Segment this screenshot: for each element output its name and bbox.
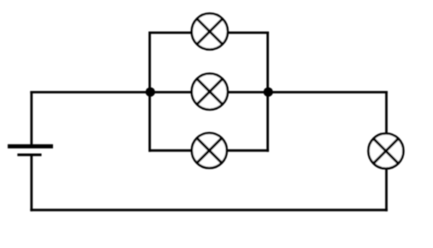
wire: main horizontal bus (battery + to parallel bank to right branch) xyxy=(32,91,387,93)
junction node: left junction dot xyxy=(146,87,156,97)
lamp L-mid (circle with X) in middle parallel branch xyxy=(192,74,228,110)
lamp L-bot (circle with X) in bottom parallel branch xyxy=(192,133,227,168)
battery cell positive plate (long) xyxy=(8,144,53,148)
battery cell negative plate (short) xyxy=(17,154,41,157)
lamp L-top (circle with X) in top parallel branch xyxy=(192,14,228,50)
wire: parallel bank left riser xyxy=(148,33,150,151)
wire: bottom return horizontal xyxy=(32,209,387,211)
junction node: right junction dot xyxy=(263,87,273,97)
wire: parallel bank right riser xyxy=(267,33,269,151)
lamp L-right (circle with X) in series right branch xyxy=(368,134,403,169)
wire: left vertical from bus down to battery positive plate xyxy=(30,92,32,146)
wire: bottom branch horizontal xyxy=(150,149,268,151)
wire: top branch horizontal xyxy=(150,32,268,34)
wire: left vertical from battery negative plate down to bottom return xyxy=(30,155,32,210)
wire: right vertical from bus down through right lamp to bottom return xyxy=(385,92,387,210)
